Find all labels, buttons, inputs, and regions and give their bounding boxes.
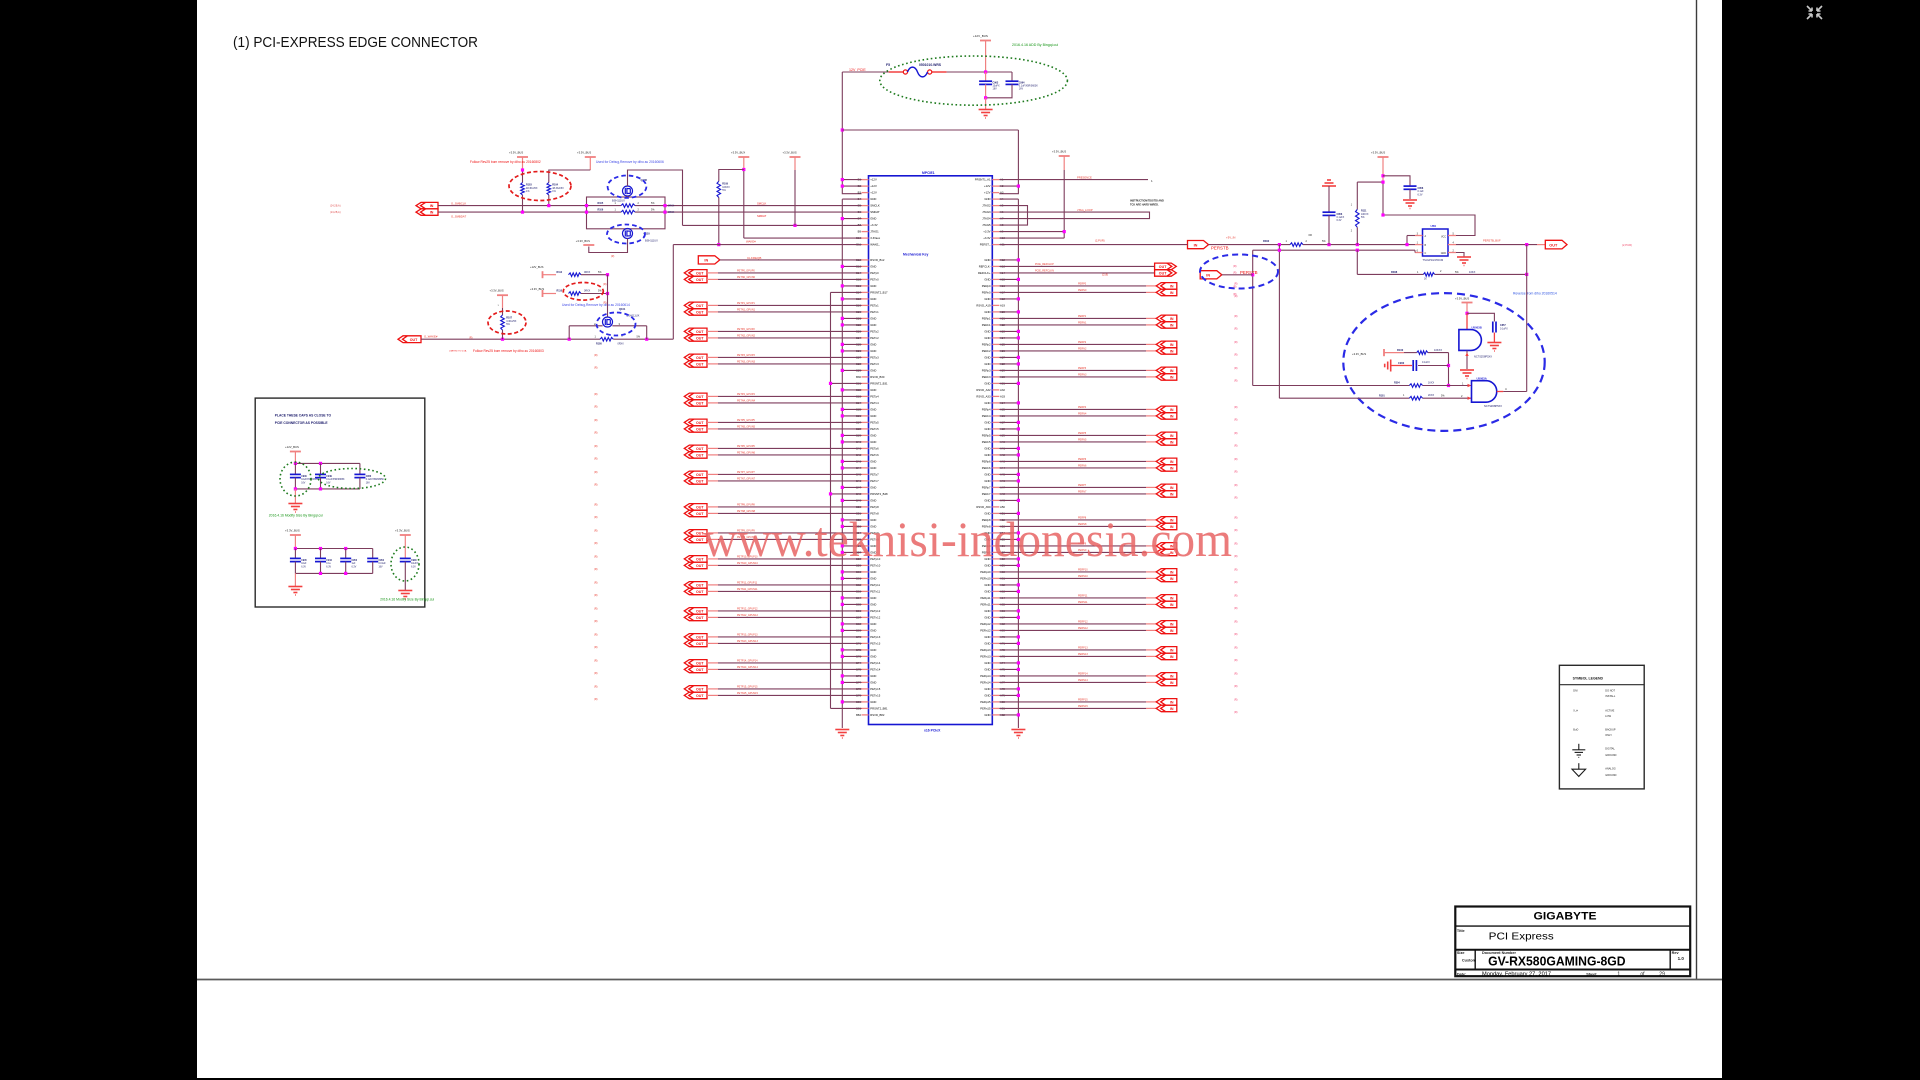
wire JTAG loop A6-A7 [999, 212, 1149, 219]
svg-text:SYMBOL LEGEND: SYMBOL LEGEND [1573, 677, 1604, 681]
svg-text:12V_PCIE: 12V_PCIE [849, 68, 866, 72]
port IN PERn2 [1156, 348, 1177, 355]
svg-text:(R): (R) [594, 445, 598, 448]
svg-text:IN: IN [704, 259, 708, 263]
resistor R302 0R [1290, 243, 1303, 247]
pin B46 PETn7 [862, 480, 869, 482]
pin A51 GND [992, 512, 999, 514]
svg-text:PETP4_GPUP4: PETP4_GPUP4 [737, 393, 755, 396]
pin A65 PERn11 [992, 603, 999, 605]
svg-text:GND: GND [870, 460, 876, 464]
svg-text:INSTALL: INSTALL [1605, 695, 1616, 698]
pin B75 PETn14 [862, 668, 869, 670]
svg-text:6.3V: 6.3V [301, 566, 306, 568]
port OUT PETn5 [684, 426, 707, 433]
wire PERn2 [999, 350, 1146, 352]
svg-text:Title: Title [1457, 929, 1465, 933]
svg-text:GND: GND [870, 217, 876, 221]
svg-text:PETP15_GPUP15: PETP15_GPUP15 [737, 686, 758, 689]
svg-text:+12V: +12V [870, 184, 877, 188]
wire PERp4 [999, 408, 1146, 410]
svg-text:PETn13: PETn13 [870, 642, 880, 646]
svg-text:IN: IN [1170, 434, 1174, 438]
svg-text:JTAG5: JTAG5 [982, 223, 991, 227]
svg-text:IN: IN [1170, 707, 1174, 711]
port IN PERp2 [1156, 341, 1177, 348]
svg-text:GND: GND [984, 687, 990, 691]
pin A45 GND [992, 473, 999, 475]
wire GND A59 [999, 564, 1018, 566]
ground C948 [398, 591, 412, 600]
svg-text:PETP12_GPUP12: PETP12_GPUP12 [737, 608, 758, 611]
wire PETn11 [707, 590, 718, 592]
svg-text:(R): (R) [594, 542, 598, 545]
wire GND B47 [842, 486, 861, 488]
big blue dashed ellipse gates [1343, 293, 1544, 431]
svg-text:G_WAKE#: G_WAKE# [424, 335, 438, 339]
svg-text:PETn2: PETn2 [870, 336, 879, 340]
svg-text:SMCLK: SMCLK [757, 201, 766, 205]
resistor R304 1K [1409, 384, 1422, 388]
svg-text:PETp6: PETp6 [870, 447, 879, 451]
svg-text:OUT: OUT [1159, 265, 1167, 269]
pin A44 PERn6 [992, 467, 999, 469]
svg-text:PETp5: PETp5 [870, 421, 879, 425]
svg-text:PERn14: PERn14 [980, 681, 991, 685]
wire PERn5 [999, 441, 1146, 443]
svg-text:Follow Rev25 bom remove by dih: Follow Rev25 bom remove by diho.su 20160… [470, 160, 541, 164]
resistor R103 48.3KA 1% [522, 170, 524, 183]
wire PETn2 [707, 337, 718, 339]
svg-text:PETP6_GPUP6: PETP6_GPUP6 [737, 445, 755, 448]
svg-text:+3.3V: +3.3V [983, 230, 990, 234]
pin B78 PETp15 [862, 688, 869, 690]
svg-text:PETp12: PETp12 [870, 609, 880, 613]
svg-text:(R): (R) [1234, 353, 1238, 356]
svg-text:PRSNT1_A1: PRSNT1_A1 [975, 178, 991, 182]
svg-text:PERn10: PERn10 [980, 577, 991, 581]
port OUT PETp6 [684, 445, 707, 452]
svg-text:+3.3V_BUS: +3.3V_BUS [1371, 151, 1385, 155]
port IN PERn8 [1156, 523, 1177, 530]
svg-text:A33: A33 [1000, 395, 1005, 399]
wire PETp12 [707, 610, 718, 612]
svg-text:GND: GND [870, 674, 876, 678]
svg-text:PERN6: PERN6 [1078, 465, 1087, 468]
svg-text:0.1uFX: 0.1uFX [1422, 361, 1430, 364]
pin A79 GND [992, 694, 999, 696]
svg-text:IN: IN [1170, 317, 1174, 321]
svg-text:JTAG_LOOP: JTAG_LOOP [1077, 208, 1093, 212]
svg-text:PERN11: PERN11 [1078, 601, 1088, 604]
port OUT PETn10 [684, 562, 707, 569]
svg-text:(R): (R) [594, 607, 598, 610]
red dashed ellipse R103 R104 [509, 172, 571, 201]
port OUT PETn1 [684, 309, 707, 316]
port IN PERn11 [1156, 601, 1177, 608]
pin B16 GND [862, 285, 869, 287]
svg-text:R106: R106 [598, 209, 604, 212]
svg-text:PETp8: PETp8 [870, 505, 879, 509]
svg-text:PERP3: PERP3 [1078, 367, 1087, 370]
pin B82 RSVD_B82 [862, 714, 869, 716]
svg-text:PERp4: PERp4 [982, 408, 991, 412]
wire PERn10 [999, 577, 1146, 579]
wire GND B69 [842, 629, 861, 631]
pin B68 GND [862, 623, 869, 625]
pin B18 GND [862, 298, 869, 300]
svg-text:PERp7: PERp7 [982, 486, 991, 490]
pin A23 GND [992, 330, 999, 332]
pin B72 GND [862, 649, 869, 651]
svg-text:+3.3V_BUS: +3.3V_BUS [1352, 352, 1366, 356]
pin B33 PETp4 [862, 395, 869, 397]
svg-text:GND: GND [870, 284, 876, 288]
pin A67 GND [992, 616, 999, 618]
svg-text:GND: GND [984, 401, 990, 405]
svg-text:+12V_BUS: +12V_BUS [530, 265, 544, 269]
port IN PERp11 [1156, 595, 1177, 602]
svg-text:0.1uF/X5R/0805K: 0.1uF/X5R/0805K [326, 479, 345, 481]
svg-text:GND: GND [984, 635, 990, 639]
svg-text:X_#: X_# [1573, 709, 1578, 712]
svg-text:PLACE THESE CAPS AS CLOSE TO: PLACE THESE CAPS AS CLOSE TO [275, 414, 332, 418]
svg-text:PERN14: PERN14 [1078, 679, 1088, 682]
svg-text:(R): (R) [1234, 367, 1238, 370]
wire +12V right bus [999, 130, 1018, 194]
svg-text:BuO: BuO [1573, 729, 1578, 732]
pin A18 GND [992, 298, 999, 300]
svg-text:6.3V: 6.3V [411, 566, 416, 568]
svg-text:OUT: OUT [696, 662, 704, 666]
port IN PERp3 [1156, 367, 1177, 374]
svg-text:+3.3V_BUS: +3.3V_BUS [395, 529, 410, 533]
resistor R108 0RXX [600, 337, 613, 341]
wire GND A58 [999, 558, 1018, 560]
svg-text:TCK ARE HARD WIRED.: TCK ARE HARD WIRED. [1130, 204, 1159, 207]
pin A40 PERn5 [992, 441, 999, 443]
svg-text:1.0: 1.0 [1678, 956, 1685, 961]
wire GND B40 [842, 441, 861, 443]
port OUT PETp13 [684, 634, 707, 641]
wire PERp6 [999, 460, 1146, 462]
svg-text:PERn13: PERn13 [980, 655, 991, 659]
svg-text:0.1u: 0.1u [326, 563, 331, 565]
svg-text:PETN2_GPUN2: PETN2_GPUN2 [737, 335, 756, 338]
wire GND B18 [842, 298, 861, 300]
svg-text:GND: GND [984, 258, 990, 262]
wire PETp15 [707, 688, 718, 690]
svg-text:PERN0: PERN0 [1078, 289, 1087, 292]
svg-text:(R): (R) [594, 620, 598, 623]
ground left C900 [1385, 360, 1391, 372]
pin B49 GND [862, 499, 869, 501]
svg-text:(2,8): (2,8) [1102, 273, 1108, 277]
pin A60 PERp10 [992, 571, 999, 573]
capacitor C900 0.1uFX [1391, 365, 1412, 367]
svg-text:GROUND: GROUND [1605, 774, 1616, 777]
blue dashed ellipse Q108 [608, 176, 647, 198]
port OUT PETn9 [684, 536, 707, 543]
svg-text:(R): (R) [594, 483, 598, 486]
svg-text:PRSNT2_B81: PRSNT2_B81 [870, 707, 888, 711]
wire +3.3V B8 [683, 224, 862, 226]
pin B10 3.3Vaux [862, 237, 869, 239]
pin A30 PERn3 [992, 376, 999, 378]
svg-text:SMCLK: SMCLK [870, 204, 880, 208]
pin B45 PETp7 [862, 473, 869, 475]
svg-text:PETn11: PETn11 [870, 590, 880, 594]
wire PETp7 [707, 473, 718, 475]
pin B25 GND [862, 343, 869, 345]
svg-text:GND: GND [870, 655, 876, 659]
wire PETn3 [707, 363, 718, 365]
svg-text:(R): (R) [1234, 484, 1238, 487]
note box place caps close [255, 398, 425, 607]
svg-text:2016.4.16 Modify Size By Bingq: 2016.4.16 Modify Size By Bingqi.cui [380, 597, 434, 601]
svg-text:GND: GND [984, 310, 990, 314]
svg-text:OUT: OUT [696, 636, 704, 640]
wire GND A51 [999, 512, 1018, 514]
svg-text:IN: IN [1170, 376, 1174, 380]
pin B17 PRSNT2_B17 [862, 291, 869, 293]
svg-text:ANALOG: ANALOG [1605, 768, 1615, 771]
svg-text:(R): (R) [1234, 406, 1238, 409]
svg-text:B30: B30 [856, 375, 861, 379]
svg-text:PERN4: PERN4 [1078, 413, 1087, 416]
port OUT PETp10 [684, 556, 707, 563]
svg-text:PETp7: PETp7 [870, 473, 879, 477]
wire PETp14 [707, 662, 718, 664]
capacitor C950 0.1uF 16V [359, 463, 361, 474]
svg-text:ACTIVE: ACTIVE [1605, 709, 1614, 712]
blue dashed ellipse PERSTB [1200, 255, 1278, 289]
svg-text:PRESENCE: PRESENCE [1077, 176, 1092, 180]
svg-text:PETp4: PETp4 [870, 395, 879, 399]
svg-text:(R): (R) [1234, 594, 1238, 597]
sheet border right edge [1696, 0, 1698, 980]
ground caps 12V [294, 489, 296, 503]
pin B5 SMCLK [862, 205, 869, 207]
svg-text:GND: GND [870, 486, 876, 490]
port IN PERp6 [1156, 458, 1177, 465]
pin A7 JTAG4 [992, 218, 999, 220]
svg-text:DIGITAL: DIGITAL [1605, 748, 1615, 751]
svg-text:PERP12: PERP12 [1078, 621, 1088, 624]
svg-text:(R): (R) [1234, 555, 1238, 558]
svg-text:PERN13: PERN13 [1078, 653, 1088, 656]
pin A36 PERn4 [992, 415, 999, 417]
resistor R111 10KXX [1356, 182, 1358, 209]
svg-text:OUT: OUT [696, 278, 704, 282]
green dotted ellipse around fuse caps [880, 56, 1068, 105]
wire GND A79 [999, 694, 1018, 696]
svg-text:JTAG1: JTAG1 [870, 230, 879, 234]
pin B23 PETp2 [862, 330, 869, 332]
svg-text:PETP5_GPUP5: PETP5_GPUP5 [737, 419, 755, 422]
svg-text:1: 1 [1617, 971, 1620, 977]
pin B19 PETp1 [862, 304, 869, 306]
pin B43 GND [862, 460, 869, 462]
legend analog ground symbol [1572, 763, 1586, 776]
svg-text:IN: IN [1170, 324, 1174, 328]
pin B69 GND [862, 629, 869, 631]
port OUT PETn15 [684, 692, 707, 699]
wire caps top rail 3V3 [295, 548, 372, 550]
svg-text:GND: GND [984, 453, 990, 457]
wire PERp11 [999, 597, 1146, 599]
port IN PERn5 [1156, 439, 1177, 446]
wire GND B52 [842, 519, 861, 521]
pin A41 GND [992, 447, 999, 449]
svg-text:GND: GND [984, 427, 990, 431]
svg-text:+12V_BUS: +12V_BUS [973, 34, 988, 38]
svg-text:PERp6: PERp6 [982, 460, 991, 464]
svg-text:PETp0: PETp0 [870, 271, 879, 275]
wire PERp13 [999, 649, 1146, 651]
port IN PERp8 [1156, 517, 1177, 524]
wire R111 top rail [1357, 181, 1383, 183]
pin B57 GND [862, 551, 869, 553]
svg-text:PERP4: PERP4 [1078, 406, 1087, 409]
pin B20 PETn1 [862, 311, 869, 313]
pin B1 +12V [862, 179, 869, 181]
svg-text:OUT: OUT [696, 480, 704, 484]
svg-text:GND: GND [984, 642, 990, 646]
svg-text:LIMITED TO 0.5A: LIMITED TO 0.5A [449, 350, 467, 353]
svg-text:B3: B3 [858, 191, 862, 195]
pin A12 GND [992, 259, 999, 261]
svg-text:PETP1_GPUP1: PETP1_GPUP1 [737, 302, 755, 305]
wire PETp9 [707, 532, 718, 534]
port IN PERp13 [1156, 647, 1177, 654]
svg-text:16V: 16V [366, 482, 371, 484]
ground below C858 [1403, 200, 1417, 209]
svg-text:10uF: 10uF [301, 563, 307, 565]
capacitor C963 10uFX 16V [985, 72, 987, 81]
port IN PERn12 [1156, 627, 1177, 634]
wire R308 row [1356, 250, 1358, 274]
port OUT PETp8 [684, 504, 707, 511]
svg-text:OUT: OUT [696, 402, 704, 406]
svg-text:PETN5_GPUN5: PETN5_GPUN5 [737, 426, 756, 429]
svg-text:GND: GND [870, 323, 876, 327]
pin A77 PERn14 [992, 681, 999, 683]
wire IN port to R302 [1209, 244, 1291, 246]
svg-text:GND: GND [984, 356, 990, 360]
resistor R106 0RXX [621, 210, 635, 214]
svg-text:PETp3: PETp3 [870, 356, 879, 360]
svg-text:Q101: Q101 [619, 307, 626, 311]
wire JTAG loop A5-A8 [999, 206, 1027, 226]
pin B11 WAKE_ [862, 244, 869, 246]
svg-text:PETP13_GPUP13: PETP13_GPUP13 [737, 634, 758, 637]
wire GND A27 [999, 356, 1018, 358]
svg-text:PRSNT2_B48: PRSNT2_B48 [870, 492, 888, 496]
svg-text:(R): (R) [1233, 265, 1237, 268]
logic gate U5003B NC7SZ08P5XX [1466, 313, 1468, 329]
svg-text:(R): (R) [1234, 341, 1238, 344]
pin B47 GND [862, 486, 869, 488]
svg-text:(R): (R) [603, 302, 607, 305]
pin A69 PERn12 [992, 629, 999, 631]
port OUT PETp15 [684, 686, 707, 693]
svg-text:(R): (R) [1234, 581, 1238, 584]
svg-text:PERp2: PERp2 [982, 343, 991, 347]
svg-text:SMDAT: SMDAT [870, 210, 880, 214]
svg-text:(R): (R) [594, 471, 598, 474]
port OUT PETp14 [684, 660, 707, 667]
svg-text:2016.4.16 Modify Size By Bingq: 2016.4.16 Modify Size By Bingqi.cui [269, 514, 323, 518]
svg-text:PETn6: PETn6 [870, 453, 879, 457]
green dotted ellipse C948 [391, 547, 419, 581]
pin A42 GND [992, 454, 999, 456]
svg-text:(R): (R) [594, 393, 598, 396]
svg-text:GND: GND [870, 414, 876, 418]
port IN CLKREQB [698, 256, 720, 264]
wire WAKE# B11 [673, 244, 861, 246]
red dashed ellipse R107 [488, 311, 526, 334]
wire PERST_ A11 to IN port [999, 244, 1187, 246]
port IN PERn13 [1156, 653, 1177, 660]
wire lower PERSTB to U50 pin C [1253, 249, 1415, 251]
pin B22 GND [862, 324, 869, 326]
pin A55 GND [992, 538, 999, 540]
symbol legend box [1559, 665, 1644, 789]
pin B54 PETp9 [862, 532, 869, 534]
capacitor C953 1uF [345, 549, 347, 559]
svg-text:JTAG3: JTAG3 [982, 210, 991, 214]
wire GND B32 [842, 389, 861, 391]
svg-text:GND: GND [984, 297, 990, 301]
svg-text:(R): (R) [594, 431, 598, 434]
svg-text:OUT: OUT [696, 688, 704, 692]
wire GND A37 [999, 421, 1018, 423]
svg-text:(R): (R) [1234, 444, 1238, 447]
svg-text:A50: A50 [1000, 505, 1005, 509]
pin B3 +12V [862, 192, 869, 194]
svg-text:PERp13: PERp13 [980, 648, 991, 652]
green dotted ellipse C949 C950 [319, 469, 386, 489]
svg-text:www.teknisi-indonesia.com: www.teknisi-indonesia.com [703, 511, 1232, 567]
svg-text:GND: GND [984, 590, 990, 594]
svg-text:OUT: OUT [696, 473, 704, 477]
svg-text:OUT: OUT [696, 304, 704, 308]
pin A5 JTAG2 [992, 205, 999, 207]
svg-text:6.3V: 6.3V [352, 566, 357, 568]
svg-text:GND: GND [984, 197, 990, 201]
wire GND B35 [842, 408, 861, 410]
svg-text:PETN13_GPUN13: PETN13_GPUN13 [737, 640, 758, 643]
port OUT PETn7 [684, 478, 707, 485]
port OUT PETn11 [684, 588, 707, 595]
svg-text:PETn7: PETn7 [870, 479, 879, 483]
svg-text:(R): (R) [1234, 379, 1238, 382]
svg-text:PETp2: PETp2 [870, 330, 879, 334]
svg-text:PRSNT2_B31: PRSNT2_B31 [870, 382, 888, 386]
svg-text:of: of [1640, 971, 1645, 977]
svg-text:OUT: OUT [696, 694, 704, 698]
pin A2 +12V [992, 185, 999, 187]
svg-text:PERN1: PERN1 [1078, 322, 1087, 325]
svg-text:0501010.WRS: 0501010.WRS [919, 63, 942, 67]
svg-text:GND: GND [870, 622, 876, 626]
svg-text:+3.3V_BUS: +3.3V_BUS [490, 289, 504, 293]
svg-text:PCIE CONNECTOR AS POSSIBLE: PCIE CONNECTOR AS POSSIBLE [275, 421, 329, 425]
port OUT PETn12 [684, 614, 707, 621]
svg-text:(R): (R) [594, 646, 598, 649]
wire PERp2 [999, 343, 1146, 345]
